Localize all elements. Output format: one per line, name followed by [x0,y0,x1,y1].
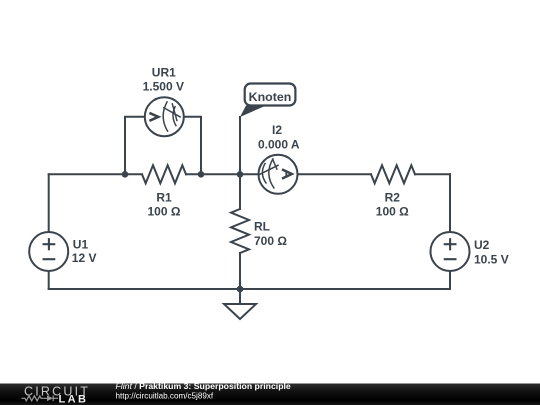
svg-text:700 Ω: 700 Ω [254,234,287,248]
svg-text:0.000 A: 0.000 A [258,138,300,152]
svg-text:R1: R1 [156,191,172,205]
svg-text:http://circuitlab.com/c5j89xf: http://circuitlab.com/c5j89xf [116,391,214,400]
svg-text:R2: R2 [385,191,401,205]
svg-text:1.500 V: 1.500 V [143,80,184,94]
svg-text:12 V: 12 V [72,251,97,265]
svg-text:RL: RL [254,220,270,234]
svg-text:I2: I2 [272,123,282,137]
svg-text:U2: U2 [474,238,490,252]
svg-text:Knoten: Knoten [249,90,292,104]
svg-text:100 Ω: 100 Ω [376,205,409,219]
svg-text:LAB: LAB [59,393,89,405]
svg-text:UR1: UR1 [152,65,176,79]
svg-text:10.5 V: 10.5 V [474,253,509,267]
svg-text:100 Ω: 100 Ω [148,205,181,219]
svg-text:U1: U1 [73,237,89,251]
svg-text:Flint / Praktikum 3: Superposi: Flint / Praktikum 3: Superposition princ… [116,381,291,391]
